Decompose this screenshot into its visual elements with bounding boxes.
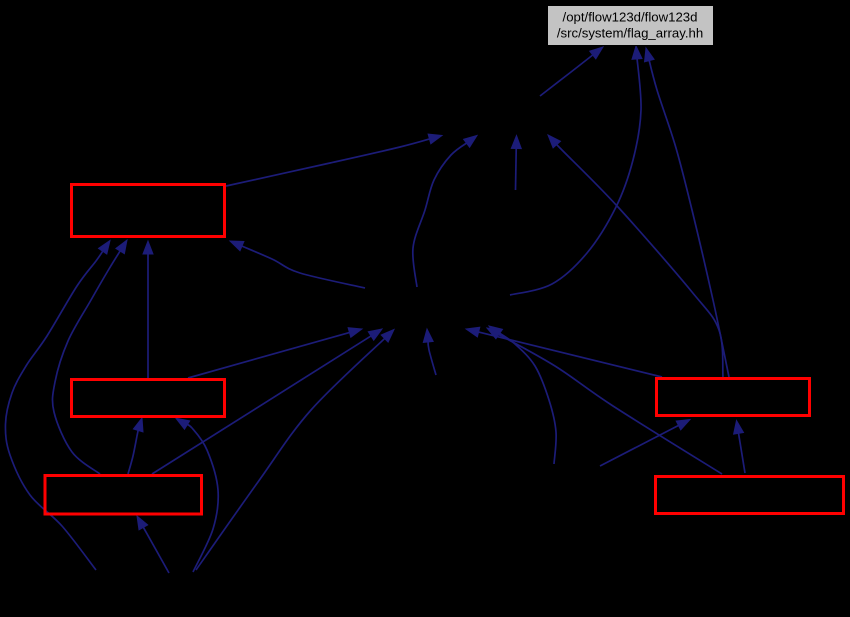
svg-text:/opt/flow123d/flow123d: /opt/flow123d/flow123d	[563, 10, 698, 25]
edge D->C	[128, 418, 143, 474]
edge N4->D	[137, 516, 169, 573]
edge D->B	[52, 240, 127, 474]
edge N7->N1	[511, 136, 521, 191]
svg-text:/src/system/flag_array.hh: /src/system/flag_array.hh	[557, 26, 703, 41]
node A /opt/flow123d/flow123d/src/system/flag_array.hh (gray box)	[548, 6, 714, 46]
edge F->E	[734, 421, 745, 474]
edge C->N2	[188, 328, 362, 378]
edge E->N1	[548, 135, 723, 377]
edge F->N2	[487, 328, 722, 474]
edge N4->N2	[196, 330, 394, 571]
edge N2->N1	[413, 136, 477, 288]
node D (red box)	[45, 476, 202, 515]
edge N4->C	[176, 418, 218, 572]
node B (red box)	[72, 185, 225, 237]
edge E->A	[645, 48, 730, 377]
edge N6->N2	[489, 326, 556, 464]
edge E->N2	[466, 327, 662, 377]
node F (red box)	[656, 477, 844, 514]
edge N2->B	[230, 241, 365, 288]
edge N6->E	[600, 420, 690, 467]
edge N4->B	[5, 241, 110, 571]
edge C->B	[143, 241, 153, 378]
edge B->N1	[226, 134, 442, 186]
edge N1->A	[540, 47, 603, 96]
edge D->N2	[152, 329, 382, 474]
node E (red box)	[657, 379, 810, 416]
edge N2->A	[510, 46, 642, 295]
node C (red box)	[72, 380, 225, 417]
edge N5->N2	[423, 329, 436, 375]
